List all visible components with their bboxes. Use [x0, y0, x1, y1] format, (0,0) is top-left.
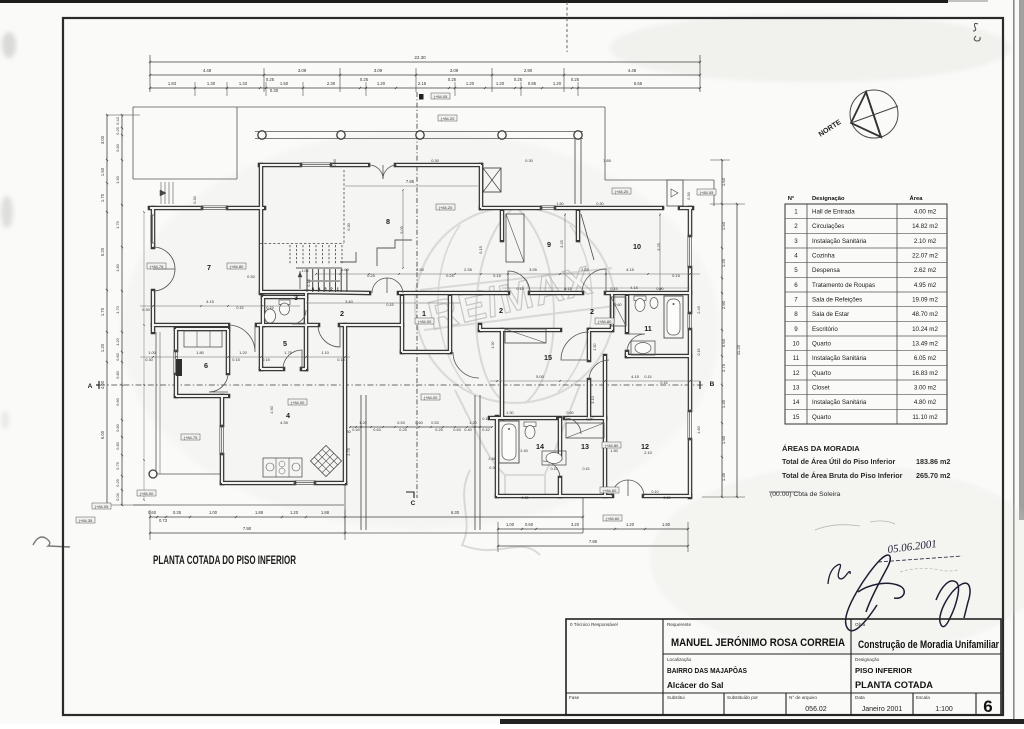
svg-text:1.75: 1.75: [284, 350, 292, 355]
svg-text:(+84.00: (+84.00: [424, 395, 438, 400]
svg-text:2.30: 2.30: [327, 81, 336, 86]
svg-text:0.15: 0.15: [610, 287, 617, 291]
room8 furniture L: [377, 240, 412, 266]
svg-text:0.03: 0.03: [115, 493, 120, 501]
svg-text:Sala de Refeições: Sala de Refeições: [812, 297, 862, 304]
svg-text:3.09: 3.09: [298, 68, 307, 73]
svg-text:1.20: 1.20: [721, 258, 726, 267]
wardrobe room13: [566, 423, 604, 438]
scan mark S: [973, 23, 980, 41]
closet corridor: [611, 297, 626, 326]
terrace south kitchen outline: [155, 332, 157, 474]
svg-text:1.88: 1.88: [255, 510, 264, 515]
door room7-lobby: [228, 325, 255, 352]
section line A-B: [99, 384, 703, 386]
svg-text:2.40: 2.40: [520, 448, 528, 453]
svg-text:1.20: 1.20: [553, 81, 562, 86]
svg-text:1.20: 1.20: [626, 522, 635, 527]
svg-text:0.15: 0.15: [493, 273, 502, 278]
svg-text:0.30: 0.30: [663, 496, 670, 500]
svg-text:13: 13: [581, 442, 589, 451]
svg-text:(+84.05: (+84.05: [700, 190, 714, 195]
svg-text:7.80: 7.80: [589, 539, 598, 544]
svg-text:Data: Data: [855, 695, 865, 700]
svg-text:1.70: 1.70: [115, 220, 120, 228]
svg-text:(+84.05: (+84.05: [95, 504, 109, 509]
svg-text:2.90: 2.90: [721, 300, 726, 309]
door wc3: [292, 310, 306, 324]
svg-text:0.15: 0.15: [660, 381, 667, 385]
bath14 sink: [542, 451, 566, 465]
svg-text:N° de arquivo: N° de arquivo: [789, 695, 817, 700]
signature right: [936, 581, 970, 627]
svg-text:A: A: [88, 383, 93, 390]
svg-text:0.90: 0.90: [656, 287, 663, 291]
door terrace rear: [453, 352, 479, 378]
bottom dimension chain right: [498, 528, 688, 530]
stairs arrow: [299, 271, 301, 289]
areas table: [785, 195, 947, 424]
svg-text:2.55: 2.55: [581, 267, 590, 272]
svg-text:0.25: 0.25: [514, 77, 523, 82]
svg-text:1.20: 1.20: [100, 343, 105, 352]
door room15: [561, 332, 589, 360]
svg-text:8: 8: [386, 217, 390, 226]
svg-text:1.20: 1.20: [496, 81, 505, 86]
faint gray wash: [120, 14, 1024, 655]
svg-text:1.20: 1.20: [469, 421, 476, 425]
svg-text:1: 1: [794, 209, 798, 216]
svg-text:1.80: 1.80: [196, 350, 204, 355]
svg-text:Tratamento de Roupas: Tratamento de Roupas: [812, 282, 875, 289]
svg-text:(+84.00: (+84.00: [418, 319, 432, 324]
svg-text:0.85: 0.85: [528, 81, 537, 86]
svg-text:0.75: 0.75: [115, 462, 120, 470]
svg-text:1.30: 1.30: [207, 81, 216, 86]
svg-text:3.25: 3.25: [656, 243, 661, 251]
door room14: [543, 461, 560, 478]
svg-text:Total de Área Bruta do Piso In: Total de Área Bruta do Piso Inferior: [782, 471, 903, 480]
top dimension chain total 22.30: [150, 61, 700, 63]
svg-text:12: 12: [641, 442, 649, 451]
svg-text:10: 10: [633, 242, 641, 251]
svg-text:B: B: [710, 381, 715, 388]
svg-text:0.25: 0.25: [571, 77, 580, 82]
svg-text:0.60: 0.60: [115, 397, 120, 405]
interior dim line y=274: [316, 273, 700, 275]
svg-text:4.80 m2: 4.80 m2: [914, 399, 937, 406]
svg-text:ÁREAS DA MORADIA: ÁREAS DA MORADIA: [782, 444, 860, 453]
svg-text:1.00: 1.00: [209, 510, 218, 515]
svg-text:0.15: 0.15: [583, 467, 590, 471]
svg-text:1.70: 1.70: [115, 305, 120, 313]
svg-text:14.82 m2: 14.82 m2: [912, 223, 938, 230]
svg-text:0.83: 0.83: [115, 144, 120, 152]
svg-text:3.00 m2: 3.00 m2: [914, 385, 937, 392]
svg-text:13: 13: [793, 385, 800, 392]
svg-text:0.60: 0.60: [525, 522, 534, 527]
svg-text:1:100: 1:100: [935, 706, 953, 713]
svg-text:6: 6: [794, 282, 798, 289]
terrace south middle outline: [344, 483, 346, 533]
svg-text:4.48: 4.48: [628, 68, 637, 73]
svg-text:0.53: 0.53: [397, 421, 404, 425]
svg-text:N°: N°: [788, 196, 795, 202]
svg-text:2.35: 2.35: [464, 267, 473, 272]
svg-text:BAIRRO DAS MAJAPÔAS: BAIRRO DAS MAJAPÔAS: [667, 666, 747, 675]
svg-text:0.30: 0.30: [145, 357, 153, 362]
svg-text:0.15: 0.15: [306, 279, 311, 287]
svg-text:0.80: 0.80: [115, 441, 120, 449]
top dimension chain row2: [150, 74, 700, 76]
svg-text:3: 3: [294, 293, 298, 302]
svg-text:0.15: 0.15: [478, 246, 483, 254]
svg-text:1.00: 1.00: [148, 350, 156, 355]
svg-text:7: 7: [207, 263, 211, 272]
svg-text:16.83 m2: 16.83 m2: [912, 370, 938, 377]
bath11 bidet: [650, 298, 658, 309]
svg-text:Alcácer do Sal: Alcácer do Sal: [667, 681, 723, 690]
svg-text:6.30: 6.30: [451, 510, 460, 515]
svg-text:0.15: 0.15: [516, 287, 523, 291]
svg-text:Área: Área: [910, 195, 924, 202]
bath14 tub: [499, 421, 519, 463]
wardrobe room15: [505, 329, 546, 343]
signature main: [846, 555, 905, 631]
svg-text:4: 4: [794, 253, 798, 260]
stairs headroom dash: [343, 170, 345, 243]
svg-text:14: 14: [536, 442, 544, 451]
svg-text:0.30: 0.30: [247, 274, 256, 279]
svg-text:0 Técnico Responsável: 0 Técnico Responsável: [570, 622, 618, 627]
svg-text:0.30: 0.30: [270, 88, 279, 93]
svg-text:0.30: 0.30: [346, 222, 351, 230]
svg-text:4.15: 4.15: [626, 267, 635, 272]
left margin blobs: [1, 32, 16, 429]
svg-text:1.88: 1.88: [321, 510, 330, 515]
svg-text:4.95 m2: 4.95 m2: [914, 282, 937, 289]
svg-text:0.15: 0.15: [266, 306, 273, 310]
svg-text:4.15: 4.15: [630, 285, 639, 290]
svg-text:11: 11: [793, 355, 800, 362]
bottom dimension chain left total: [150, 532, 345, 534]
svg-text:2.15: 2.15: [418, 81, 427, 86]
svg-text:10: 10: [793, 341, 800, 348]
svg-text:6.00: 6.00: [100, 430, 105, 439]
scan edge top: [0, 0, 948, 3]
svg-text:5.00: 5.00: [536, 374, 545, 379]
right dimension chains: [721, 160, 723, 497]
wc3 sink: [265, 309, 276, 323]
svg-text:0.15: 0.15: [337, 357, 345, 362]
kitchen tile square: [310, 445, 341, 476]
door main entrance (double): [369, 165, 383, 179]
svg-text:1.20: 1.20: [290, 510, 299, 515]
svg-text:Designação: Designação: [855, 657, 880, 662]
svg-text:19.09 m2: 19.09 m2: [912, 297, 938, 304]
svg-text:0.80: 0.80: [115, 370, 120, 378]
svg-text:0.15: 0.15: [236, 306, 243, 310]
svg-text:PLANTA COTADA DO PISO INFERIOR: PLANTA COTADA DO PISO INFERIOR: [153, 555, 296, 567]
svg-text:48.70 m2: 48.70 m2: [912, 311, 938, 318]
svg-text:Requerente: Requerente: [667, 622, 691, 627]
svg-text:0.15: 0.15: [386, 303, 393, 307]
svg-text:22.07 m2: 22.07 m2: [912, 253, 938, 260]
svg-text:3.95: 3.95: [529, 267, 538, 272]
svg-text:Substituído por: Substituído por: [727, 695, 758, 700]
svg-text:15: 15: [544, 353, 552, 362]
faint pencil note: [815, 521, 895, 530]
porch columns: [258, 131, 266, 139]
svg-text:1.20: 1.20: [466, 81, 475, 86]
svg-text:3: 3: [794, 238, 798, 245]
svg-text:1.90: 1.90: [721, 435, 726, 444]
svg-text:0.15: 0.15: [232, 357, 240, 362]
svg-text:1.50: 1.50: [593, 343, 597, 350]
svg-text:Quarto: Quarto: [812, 414, 831, 421]
svg-text:12: 12: [793, 370, 800, 377]
door room12 hall: [589, 360, 609, 380]
door room7 french: [153, 247, 175, 269]
svg-text:0.30: 0.30: [525, 158, 533, 163]
scan edge bottom: [500, 719, 1024, 724]
svg-text:9: 9: [794, 326, 798, 333]
svg-text:4.35: 4.35: [280, 420, 289, 425]
entry steps left: [160, 182, 162, 204]
svg-text:(+84.20: (+84.20: [615, 189, 629, 194]
bath14 toilet: [524, 422, 536, 427]
svg-text:4.60: 4.60: [696, 425, 701, 433]
bath11 toilet: [634, 296, 646, 301]
svg-text:0.15: 0.15: [672, 273, 681, 278]
svg-text:056.02: 056.02: [805, 706, 827, 713]
svg-text:2.10 m2: 2.10 m2: [914, 238, 937, 245]
svg-text:4.00 m2: 4.00 m2: [914, 209, 937, 216]
svg-text:2.46: 2.46: [488, 457, 495, 461]
svg-text:1.83: 1.83: [168, 81, 177, 86]
svg-text:0.15: 0.15: [644, 375, 651, 379]
svg-text:11: 11: [644, 324, 652, 333]
svg-text:0.30: 0.30: [596, 202, 603, 206]
svg-text:1.60: 1.60: [341, 267, 350, 272]
svg-text:(+84.35: (+84.35: [79, 518, 93, 523]
svg-text:(+84.05: (+84.05: [434, 94, 448, 99]
svg-text:4.15: 4.15: [206, 299, 215, 304]
svg-text:0.15: 0.15: [551, 467, 558, 471]
svg-text:1.20: 1.20: [115, 337, 120, 345]
svg-text:2: 2: [794, 223, 798, 230]
svg-text:0.25: 0.25: [367, 273, 376, 278]
svg-text:0.25: 0.25: [399, 428, 406, 432]
svg-text:0.40: 0.40: [464, 428, 471, 432]
svg-text:(+84.20: (+84.20: [439, 205, 453, 210]
svg-text:9: 9: [547, 240, 551, 249]
svg-text:2.45: 2.45: [696, 306, 701, 314]
svg-text:1.20: 1.20: [239, 350, 247, 355]
svg-text:0.15: 0.15: [262, 357, 270, 362]
svg-text:0.25: 0.25: [446, 273, 455, 278]
svg-text:PISO INFERIOR: PISO INFERIOR: [855, 666, 913, 675]
svg-text:4.50: 4.50: [269, 405, 274, 413]
svg-text:Substitui: Substitui: [667, 695, 685, 700]
porch column line: [255, 131, 583, 133]
stairs: [260, 243, 344, 245]
svg-text:0.60: 0.60: [115, 423, 120, 431]
svg-text:4.48: 4.48: [203, 68, 212, 73]
svg-text:Closet: Closet: [812, 385, 830, 392]
svg-text:5: 5: [794, 267, 798, 274]
interior dim line y=306: [140, 305, 300, 307]
svg-text:1.50: 1.50: [100, 167, 105, 176]
svg-text:3.10: 3.10: [590, 395, 595, 403]
svg-text:0.60: 0.60: [115, 352, 120, 360]
svg-text:(+84.80: (+84.80: [605, 443, 619, 448]
svg-text:Circulações: Circulações: [812, 223, 844, 230]
svg-text:0.30: 0.30: [431, 158, 439, 163]
svg-text:0.10: 0.10: [651, 490, 658, 494]
svg-text:0.60: 0.60: [614, 303, 621, 307]
svg-text:1.10: 1.10: [321, 350, 329, 355]
svg-text:Quarto: Quarto: [812, 370, 831, 377]
svg-text:0.80: 0.80: [586, 417, 593, 421]
wardrobe room9: [506, 214, 524, 262]
room6 washers: [184, 331, 222, 347]
svg-text:0.43: 0.43: [115, 117, 120, 125]
svg-text:0.25: 0.25: [360, 77, 369, 82]
svg-text:2.75: 2.75: [721, 363, 726, 372]
svg-text:(+84.75: (+84.75: [184, 435, 198, 440]
svg-text:1.05: 1.05: [302, 269, 309, 273]
svg-text:0.73: 0.73: [159, 518, 168, 523]
svg-text:22.30: 22.30: [414, 55, 426, 60]
left dimension chains: [106, 115, 108, 505]
svg-text:Quarto: Quarto: [812, 341, 831, 348]
title block: [566, 619, 1001, 715]
svg-text:Escala: Escala: [916, 695, 930, 700]
svg-text:Fase: Fase: [569, 695, 580, 700]
svg-text:3.00: 3.00: [100, 135, 105, 144]
svg-text:1.50: 1.50: [115, 175, 120, 183]
svg-text:(+84.76: (+84.76: [150, 264, 164, 269]
svg-text:0.30: 0.30: [332, 158, 337, 166]
svg-text:Cozinha: Cozinha: [812, 253, 835, 260]
top dimension chain row3: [150, 87, 700, 89]
svg-text:PLANTA COTADA: PLANTA COTADA: [855, 680, 933, 691]
svg-text:(+84.00: (+84.00: [140, 491, 154, 496]
svg-text:Localização: Localização: [667, 657, 692, 662]
section line stub top: [566, 2, 568, 52]
svg-text:Obra: Obra: [855, 622, 866, 627]
door corridor-kitchen: [318, 325, 340, 347]
svg-text:Total de Área Útil do Piso Inf: Total de Área Útil do Piso Inferior: [782, 457, 895, 466]
sliding door 9/10: [581, 214, 594, 260]
svg-text:10.24 m2: 10.24 m2: [912, 326, 938, 333]
svg-text:6: 6: [983, 697, 992, 716]
svg-text:3.09: 3.09: [450, 68, 459, 73]
door room12 south double: [612, 480, 628, 496]
svg-text:1.50: 1.50: [556, 202, 563, 206]
terrace steps walls: [360, 395, 362, 530]
svg-text:Instalação Sanitária: Instalação Sanitária: [812, 355, 867, 362]
chimney right wing: [667, 180, 683, 206]
svg-text:6.05 m2: 6.05 m2: [914, 355, 937, 362]
svg-text:1.30: 1.30: [721, 399, 726, 408]
svg-text:1.33: 1.33: [239, 81, 248, 86]
svg-text:2: 2: [590, 307, 594, 316]
svg-text:0.30: 0.30: [142, 307, 151, 312]
svg-text:1.80: 1.80: [115, 263, 120, 271]
svg-text:0.25: 0.25: [266, 77, 275, 82]
svg-text:4: 4: [286, 411, 290, 420]
svg-text:Escritório: Escritório: [812, 326, 838, 333]
svg-text:5.20: 5.20: [100, 247, 105, 256]
bottom dimension chain left: [150, 516, 583, 518]
svg-text:5.55: 5.55: [634, 81, 643, 86]
svg-text:1.50: 1.50: [280, 81, 289, 86]
svg-text:0.60: 0.60: [415, 421, 422, 425]
interior dim line right y=381: [490, 380, 700, 382]
svg-text:1.70: 1.70: [100, 193, 105, 202]
svg-text:Designação: Designação: [812, 196, 845, 202]
svg-text:1.20: 1.20: [359, 421, 366, 425]
door hall front (double): [372, 278, 387, 293]
svg-text:2.30: 2.30: [416, 267, 425, 272]
svg-text:MANUEL JERÓNIMO ROSA CORREIA: MANUEL JERÓNIMO ROSA CORREIA: [671, 636, 845, 649]
svg-text:0.35: 0.35: [173, 510, 182, 515]
svg-text:(+84.80: (+84.80: [230, 264, 244, 269]
svg-text:2.90: 2.90: [524, 68, 533, 73]
svg-text:1.50: 1.50: [721, 221, 726, 230]
svg-text:1.30: 1.30: [491, 341, 495, 348]
svg-text:0.42: 0.42: [482, 428, 489, 432]
svg-text:(+84.80: (+84.80: [598, 319, 612, 324]
svg-text:0.25: 0.25: [435, 428, 442, 432]
svg-text:Sala de Estar: Sala de Estar: [812, 311, 849, 318]
svg-text:2: 2: [340, 309, 344, 318]
svg-text:0.63: 0.63: [373, 428, 380, 432]
windows: [300, 162, 332, 164]
terrace inner dim chain: [350, 426, 492, 428]
svg-text:265.70 m2: 265.70 m2: [916, 471, 950, 480]
svg-text:1.60: 1.60: [721, 177, 726, 186]
bottom dimension chain right total: [498, 545, 688, 547]
svg-text:1.30: 1.30: [721, 472, 726, 481]
roof overhang outline: [133, 106, 605, 108]
svg-text:0.15: 0.15: [564, 287, 571, 291]
door room6: [209, 373, 228, 392]
svg-text:2: 2: [499, 306, 503, 315]
svg-text:1.50: 1.50: [610, 448, 618, 453]
svg-text:3.09: 3.09: [374, 68, 383, 73]
svg-text:7: 7: [794, 297, 798, 304]
bath11 tub: [664, 296, 683, 338]
svg-text:0.25: 0.25: [115, 479, 120, 487]
svg-text:0.30: 0.30: [686, 191, 691, 199]
svg-text:0.30: 0.30: [521, 496, 528, 500]
scan edge right: [1013, 0, 1015, 724]
svg-text:0.63: 0.63: [453, 428, 460, 432]
svg-text:6: 6: [204, 361, 208, 370]
kitchen counter: [263, 458, 302, 477]
svg-text:183.86 m2: 183.86 m2: [916, 457, 950, 466]
svg-text:Construção de Moradia Unifamil: Construção de Moradia Unifamiliar: [858, 639, 999, 651]
svg-text:11.20: 11.20: [736, 344, 741, 355]
svg-text:1: 1: [422, 309, 426, 318]
svg-text:(+84.60: (+84.60: [606, 516, 620, 521]
watermark remax balloon: [415, 207, 615, 555]
svg-text:(+84.20: (+84.20: [441, 116, 455, 121]
svg-text:0.15: 0.15: [697, 349, 701, 356]
